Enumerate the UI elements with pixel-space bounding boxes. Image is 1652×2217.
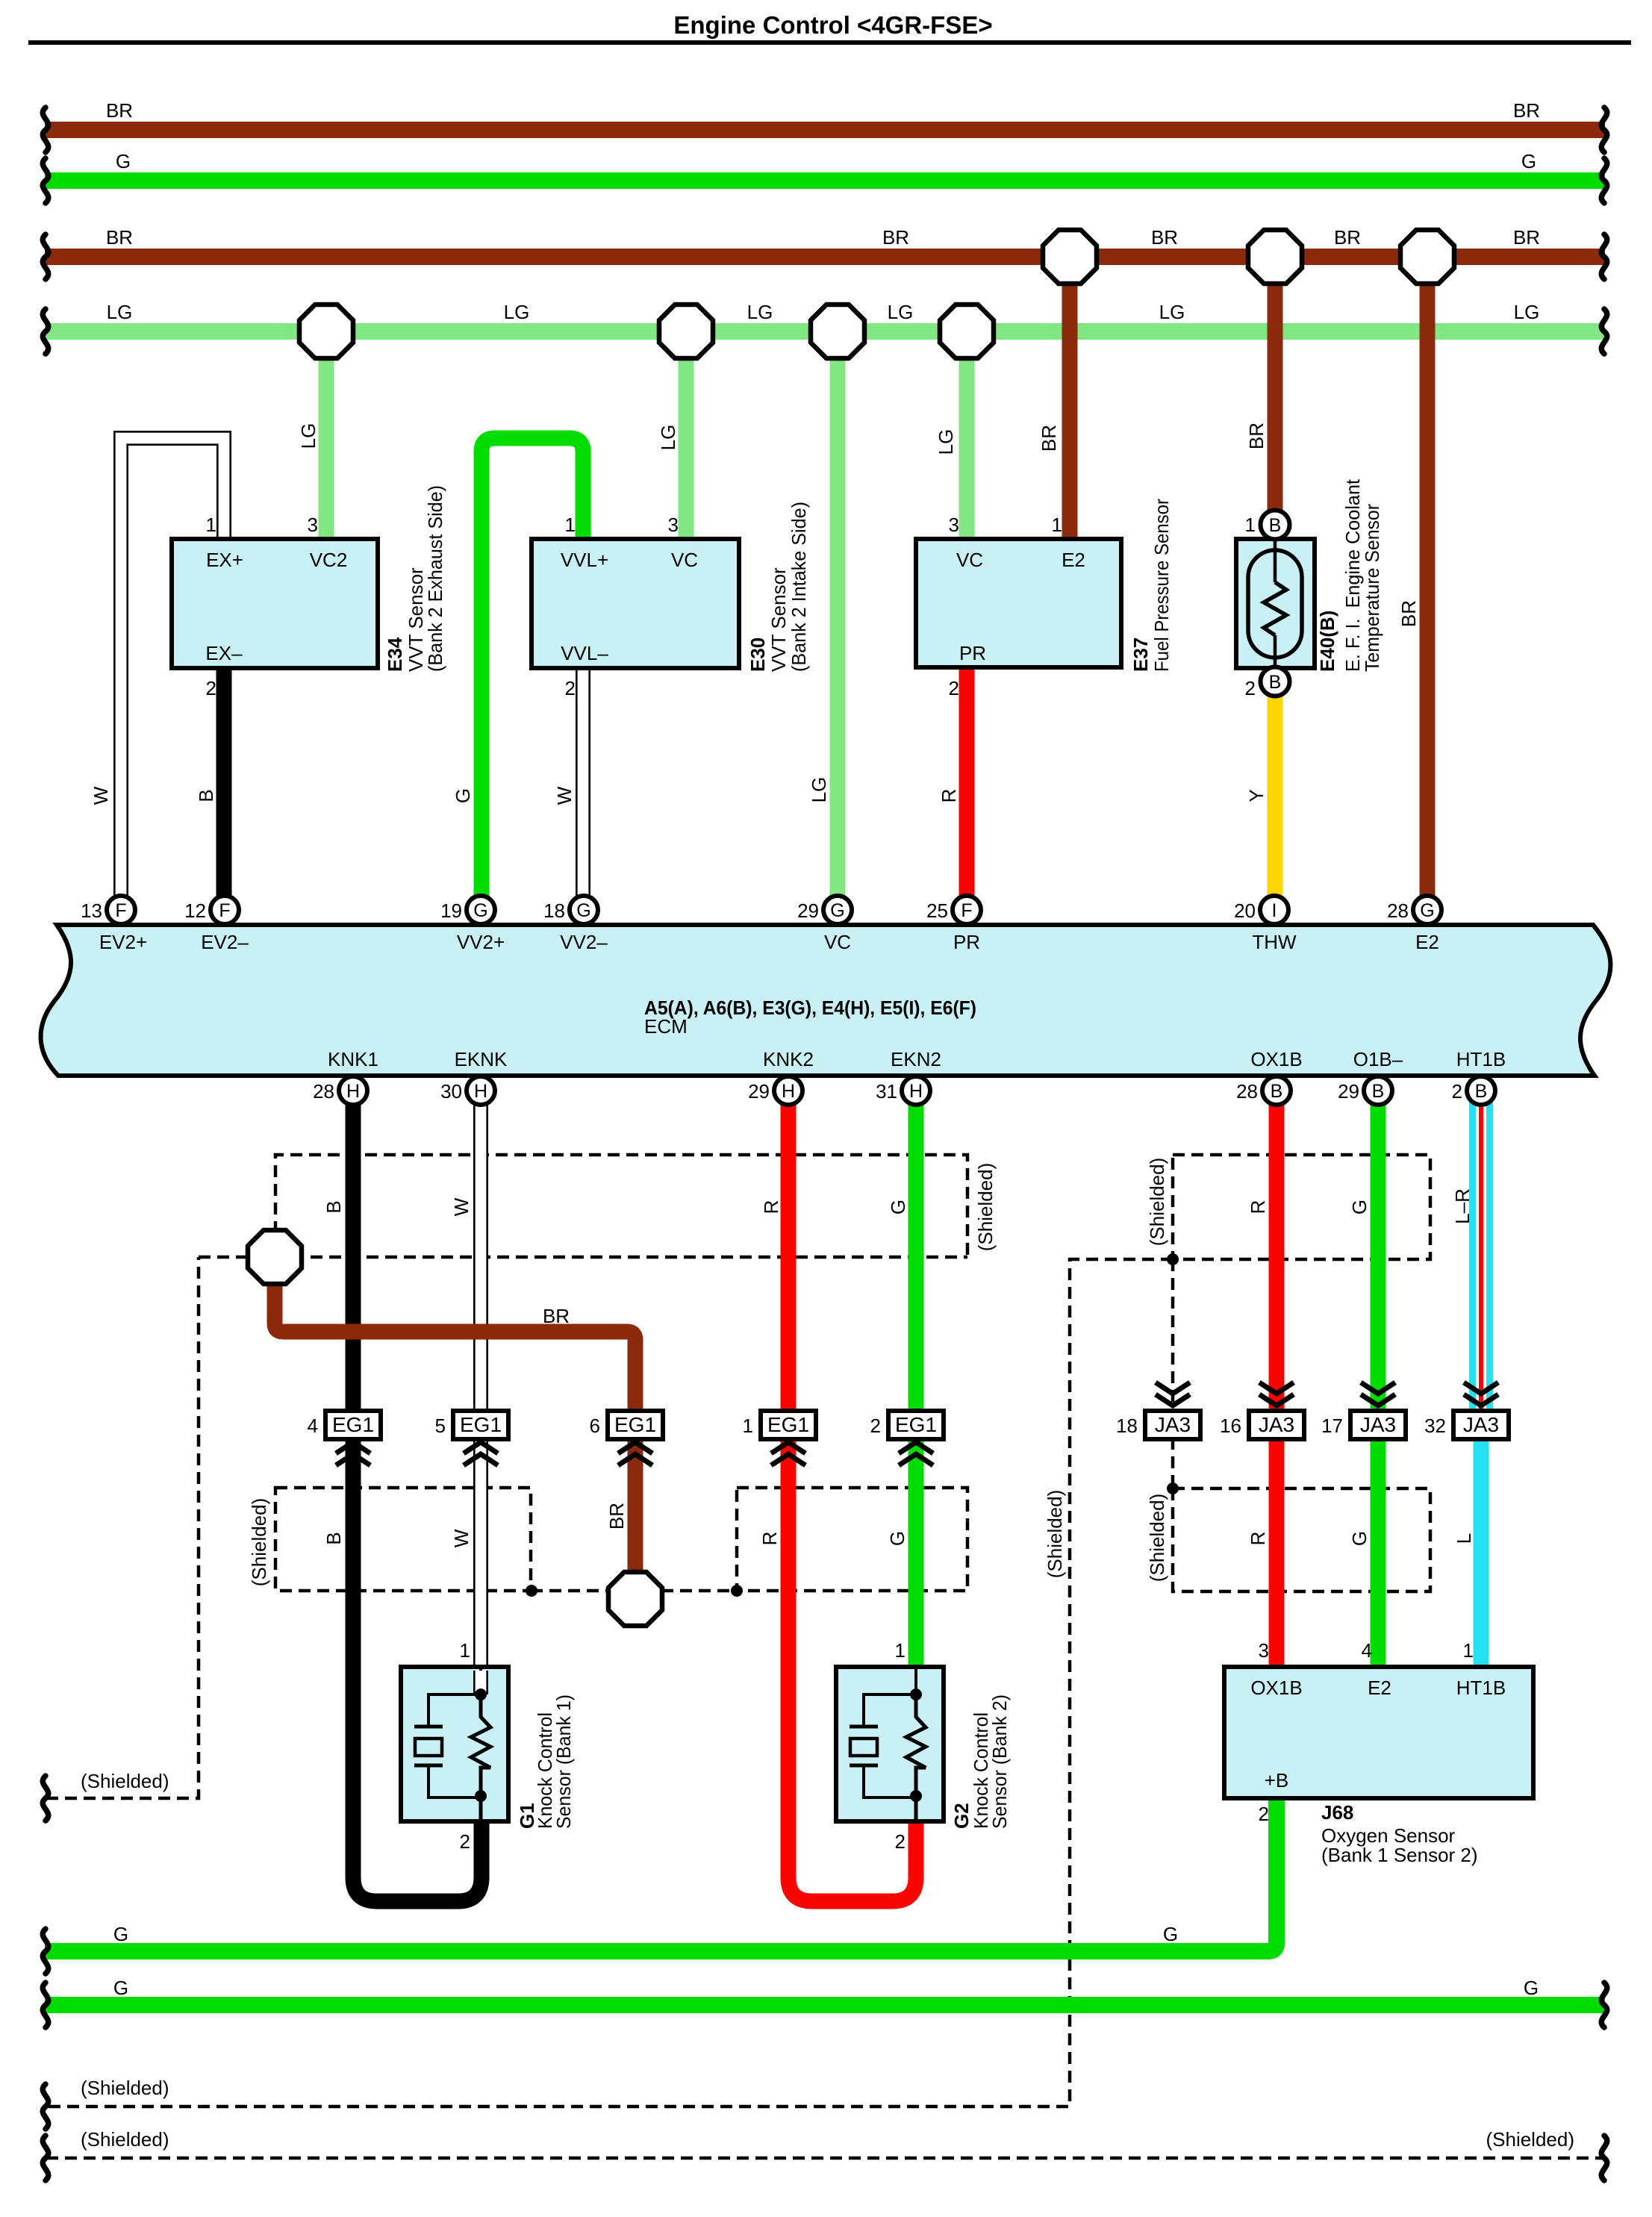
svg-text:H: H — [346, 1081, 360, 1102]
svg-text:B: B — [195, 789, 217, 802]
svg-text:R: R — [1247, 1200, 1269, 1214]
svg-text:Engine Control <4GR-FSE>: Engine Control <4GR-FSE> — [673, 11, 992, 39]
svg-text:20: 20 — [1234, 899, 1256, 922]
svg-text:Temperature Sensor: Temperature Sensor — [1361, 504, 1383, 672]
svg-text:28: 28 — [1387, 899, 1409, 922]
svg-text:3: 3 — [949, 514, 959, 536]
svg-text:E2: E2 — [1062, 549, 1085, 571]
svg-text:2: 2 — [206, 677, 216, 699]
svg-text:5: 5 — [435, 1415, 446, 1437]
svg-text:B: B — [1372, 1081, 1385, 1102]
svg-text:BR: BR — [543, 1305, 570, 1327]
svg-text:EKN2: EKN2 — [891, 1048, 941, 1070]
svg-text:OX1B: OX1B — [1250, 1048, 1302, 1070]
svg-text:ECM: ECM — [644, 1015, 688, 1038]
svg-text:EV2–: EV2– — [201, 931, 249, 953]
svg-text:3: 3 — [1259, 1639, 1269, 1662]
svg-text:LG: LG — [935, 429, 957, 455]
svg-text:JA3: JA3 — [1360, 1413, 1396, 1436]
svg-text:2: 2 — [460, 1830, 470, 1853]
svg-text:B: B — [322, 1200, 345, 1213]
svg-text:+B: +B — [1265, 1769, 1289, 1792]
svg-text:32: 32 — [1424, 1415, 1446, 1437]
svg-text:LG: LG — [808, 777, 830, 803]
svg-text:13: 13 — [81, 899, 102, 922]
svg-text:E40(B): E40(B) — [1316, 611, 1338, 672]
svg-text:1: 1 — [460, 1639, 470, 1662]
svg-text:2: 2 — [1452, 1080, 1462, 1103]
svg-text:29: 29 — [797, 899, 819, 922]
svg-text:1: 1 — [743, 1415, 753, 1437]
svg-text:(Shielded): (Shielded) — [248, 1498, 270, 1587]
svg-text:(Shielded): (Shielded) — [1486, 2128, 1574, 2151]
svg-text:E2: E2 — [1415, 931, 1439, 953]
svg-text:EG1: EG1 — [614, 1413, 656, 1436]
svg-text:W: W — [553, 786, 576, 805]
svg-text:A5(A), A6(B), E3(G), E4(H), E5: A5(A), A6(B), E3(G), E4(H), E5(I), E6(F) — [644, 997, 976, 1019]
svg-text:B: B — [1269, 515, 1282, 536]
svg-text:4: 4 — [1362, 1639, 1372, 1662]
svg-text:E2: E2 — [1368, 1677, 1391, 1699]
svg-text:THW: THW — [1252, 931, 1297, 953]
svg-text:JA3: JA3 — [1463, 1413, 1499, 1436]
svg-text:LG: LG — [657, 425, 679, 451]
svg-text:HT1B: HT1B — [1456, 1048, 1506, 1070]
svg-text:F: F — [219, 900, 230, 921]
svg-text:KNK2: KNK2 — [763, 1048, 814, 1070]
svg-text:(Shielded): (Shielded) — [974, 1163, 997, 1252]
svg-text:KNK1: KNK1 — [328, 1048, 378, 1070]
svg-text:R: R — [760, 1200, 782, 1214]
svg-text:16: 16 — [1220, 1415, 1241, 1437]
svg-text:VVL–: VVL– — [561, 642, 608, 664]
svg-text:17: 17 — [1321, 1415, 1343, 1437]
svg-text:E30: E30 — [746, 637, 769, 672]
svg-text:W: W — [450, 1197, 473, 1216]
svg-text:28: 28 — [313, 1080, 334, 1103]
svg-text:(Bank 1 Sensor 2): (Bank 1 Sensor 2) — [1321, 1844, 1478, 1866]
svg-text:OX1B: OX1B — [1250, 1677, 1302, 1699]
svg-text:18: 18 — [1116, 1415, 1138, 1437]
svg-text:EV2+: EV2+ — [99, 931, 147, 953]
svg-text:VC: VC — [671, 549, 698, 571]
svg-text:G: G — [886, 1531, 908, 1546]
svg-text:BR: BR — [106, 226, 133, 249]
svg-text:LG: LG — [297, 423, 320, 449]
svg-text:BR: BR — [1038, 425, 1060, 452]
svg-text:(Shielded): (Shielded) — [81, 1770, 169, 1792]
svg-text:28: 28 — [1236, 1080, 1258, 1103]
svg-text:EKNK: EKNK — [455, 1048, 508, 1070]
svg-text:BR: BR — [1513, 226, 1540, 249]
svg-text:29: 29 — [1338, 1080, 1359, 1103]
svg-text:1: 1 — [895, 1639, 906, 1662]
svg-text:L–R: L–R — [1451, 1188, 1474, 1224]
svg-text:2: 2 — [895, 1830, 906, 1853]
svg-text:R: R — [938, 789, 960, 803]
svg-text:JA3: JA3 — [1259, 1413, 1294, 1436]
svg-text:1: 1 — [1245, 514, 1256, 536]
svg-text:G: G — [830, 900, 844, 921]
svg-text:G: G — [473, 900, 487, 921]
svg-text:BR: BR — [1151, 226, 1178, 249]
svg-text:(Shielded): (Shielded) — [1146, 1494, 1168, 1583]
svg-text:2: 2 — [1259, 1803, 1269, 1825]
svg-text:LG: LG — [888, 301, 914, 323]
svg-text:G: G — [113, 1923, 128, 1945]
svg-text:B: B — [1271, 1081, 1283, 1102]
svg-text:Sensor (Bank 1): Sensor (Bank 1) — [552, 1694, 575, 1829]
svg-text:VVT Sensor: VVT Sensor — [767, 567, 790, 672]
svg-text:(Shielded): (Shielded) — [81, 2128, 169, 2151]
svg-text:30: 30 — [440, 1080, 462, 1103]
svg-text:29: 29 — [748, 1080, 770, 1103]
svg-text:Fuel Pressure Sensor: Fuel Pressure Sensor — [1150, 499, 1173, 672]
svg-text:(Bank 2 Intake Side): (Bank 2 Intake Side) — [788, 502, 810, 672]
svg-text:LG: LG — [747, 301, 773, 323]
svg-text:VC: VC — [824, 931, 851, 953]
svg-text:B: B — [1475, 1081, 1488, 1102]
svg-text:G: G — [1348, 1200, 1371, 1214]
svg-text:G: G — [1163, 1923, 1178, 1945]
svg-text:EG1: EG1 — [767, 1413, 809, 1436]
svg-text:2: 2 — [565, 677, 576, 699]
svg-text:VV2–: VV2– — [560, 931, 608, 953]
svg-text:2: 2 — [949, 677, 959, 699]
svg-text:2: 2 — [1245, 677, 1256, 699]
svg-text:BR: BR — [1397, 600, 1420, 627]
svg-text:1: 1 — [1052, 514, 1062, 536]
svg-text:(Shielded): (Shielded) — [1044, 1490, 1066, 1579]
svg-text:G: G — [116, 150, 131, 172]
svg-text:W: W — [450, 1529, 473, 1547]
svg-text:BR: BR — [605, 1503, 628, 1530]
svg-text:1: 1 — [206, 514, 216, 536]
svg-text:BR: BR — [882, 226, 909, 249]
svg-text:L: L — [1453, 1533, 1475, 1544]
svg-text:G: G — [1420, 900, 1434, 921]
svg-text:H: H — [782, 1081, 795, 1102]
svg-text:PR: PR — [953, 931, 980, 953]
svg-text:1: 1 — [565, 514, 576, 536]
svg-text:(Bank 2 Exhaust Side): (Bank 2 Exhaust Side) — [424, 485, 446, 672]
svg-text:F: F — [115, 900, 126, 921]
svg-text:JA3: JA3 — [1155, 1413, 1191, 1436]
svg-text:12: 12 — [184, 899, 206, 922]
svg-text:G: G — [576, 900, 590, 921]
svg-text:G: G — [1524, 1977, 1539, 1999]
svg-text:R: R — [1247, 1532, 1269, 1546]
svg-text:Sensor (Bank 2): Sensor (Bank 2) — [988, 1694, 1011, 1829]
svg-text:19: 19 — [440, 899, 462, 922]
svg-text:J68: J68 — [1321, 1801, 1353, 1824]
svg-text:LG: LG — [504, 301, 530, 323]
svg-text:EX+: EX+ — [206, 549, 243, 571]
svg-text:I: I — [1272, 900, 1277, 921]
svg-text:EG1: EG1 — [460, 1413, 502, 1436]
svg-text:EG1: EG1 — [332, 1413, 374, 1436]
svg-text:PR: PR — [959, 642, 986, 664]
svg-text:B: B — [322, 1532, 345, 1544]
svg-text:3: 3 — [668, 514, 679, 536]
svg-text:G: G — [1348, 1531, 1371, 1546]
svg-text:BR: BR — [106, 99, 133, 122]
svg-text:3: 3 — [308, 514, 318, 536]
svg-text:(Shielded): (Shielded) — [81, 2077, 169, 2099]
svg-text:G: G — [1521, 150, 1536, 172]
svg-text:HT1B: HT1B — [1456, 1677, 1506, 1699]
svg-text:1: 1 — [1463, 1639, 1474, 1662]
svg-text:4: 4 — [308, 1415, 318, 1437]
svg-text:VC: VC — [956, 549, 983, 571]
svg-text:31: 31 — [876, 1080, 897, 1103]
svg-text:EX–: EX– — [205, 642, 243, 664]
svg-text:E37: E37 — [1129, 637, 1152, 672]
svg-text:R: R — [758, 1532, 781, 1546]
svg-text:VVL+: VVL+ — [561, 549, 608, 571]
svg-text:BR: BR — [1334, 226, 1361, 249]
svg-text:LG: LG — [107, 301, 133, 323]
svg-text:18: 18 — [543, 899, 565, 922]
svg-text:VV2+: VV2+ — [457, 931, 505, 953]
svg-text:LG: LG — [1159, 301, 1185, 323]
svg-text:LG: LG — [1514, 301, 1540, 323]
svg-text:G: G — [113, 1977, 128, 1999]
svg-text:BR: BR — [1245, 422, 1268, 449]
svg-text:F: F — [961, 900, 972, 921]
svg-text:Y: Y — [1245, 789, 1268, 802]
svg-text:H: H — [909, 1081, 923, 1102]
svg-text:2: 2 — [870, 1415, 881, 1437]
svg-text:6: 6 — [590, 1415, 600, 1437]
svg-text:VC2: VC2 — [310, 549, 348, 571]
svg-text:(Shielded): (Shielded) — [1146, 1158, 1168, 1247]
svg-text:O1B–: O1B– — [1353, 1048, 1403, 1070]
svg-text:BR: BR — [1513, 99, 1540, 122]
svg-text:G: G — [452, 788, 474, 803]
svg-text:EG1: EG1 — [895, 1413, 937, 1436]
svg-text:E34: E34 — [384, 637, 406, 672]
svg-text:W: W — [90, 786, 112, 805]
svg-text:B: B — [1269, 672, 1282, 693]
svg-text:H: H — [474, 1081, 487, 1102]
svg-text:G: G — [887, 1200, 909, 1214]
svg-text:25: 25 — [926, 899, 948, 922]
